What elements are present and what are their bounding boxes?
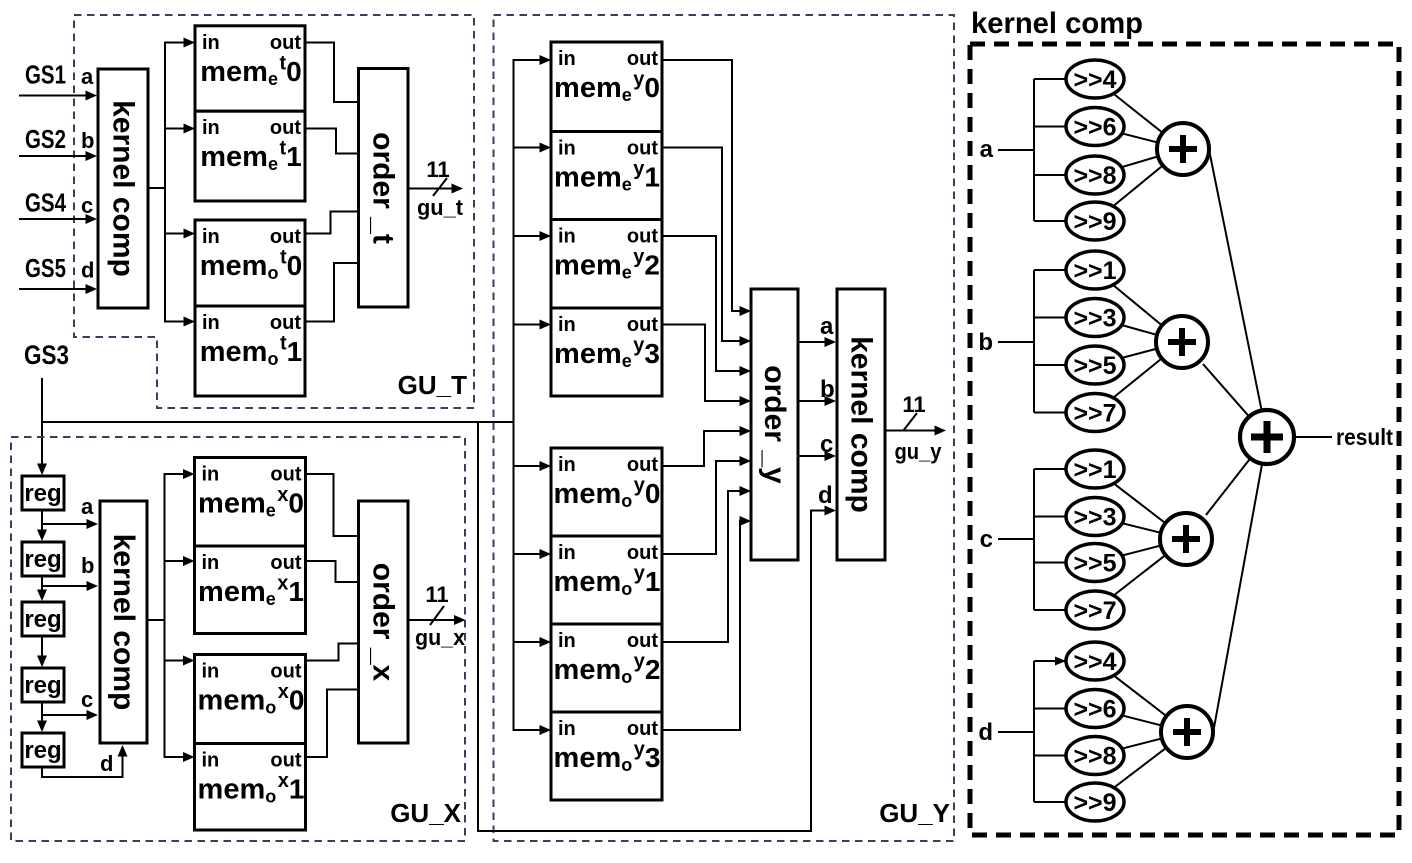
wire memet1 input arrow (GU_T)	[164, 128, 187, 130]
svg-text:>>3: >>3	[1073, 305, 1116, 333]
wire mem_e_y2 out to order_y	[662, 236, 742, 371]
block kernel comp (GU_Y)	[837, 289, 885, 560]
svg-text:memet1: memet1	[200, 138, 301, 175]
wire tap a to kernel comp (GU_X)	[42, 523, 90, 525]
wire a distribution vertical	[1033, 79, 1035, 221]
wire d distribution vertical	[1033, 661, 1035, 802]
block memo_t1 (GU_T)	[195, 306, 305, 396]
wire mem input distribution (GU_T)	[164, 43, 166, 322]
wire shifter to adder (d)	[1095, 661, 1187, 732]
wire d input line	[998, 731, 1034, 733]
block mem_e_y1 (GU_Y)	[551, 132, 662, 220]
wire b distribution vertical	[1033, 270, 1035, 413]
kernel comp dashed boundary	[970, 44, 1399, 835]
wire shifter to adder (a)	[1095, 149, 1183, 175]
svg-text:11: 11	[425, 582, 448, 607]
block reg4 (GU_X)	[22, 668, 64, 702]
wire mem_e_y3 out to order_y	[662, 325, 742, 402]
wire tap c to kernel comp (GU_X)	[42, 714, 90, 716]
wire shifter to adder (b)	[1095, 318, 1182, 343]
block reg5 (GU_X)	[22, 733, 64, 767]
svg-text:kernel comp: kernel comp	[107, 100, 140, 277]
svg-text:>>5: >>5	[1073, 550, 1116, 578]
bus slash gu_x (11)	[430, 606, 444, 625]
svg-text:out: out	[627, 630, 658, 652]
wire stub to shifter >>5 (c)	[1034, 562, 1095, 564]
svg-text:gu_t: gu_t	[417, 195, 464, 220]
svg-text:d: d	[81, 258, 94, 283]
svg-text:out: out	[627, 542, 658, 564]
svg-text:memoy3: memoy3	[554, 739, 661, 776]
wire shifter to adder (a)	[1095, 79, 1183, 149]
wire mem_e_y0 input arrow (GU_Y)	[513, 59, 544, 61]
wire b input line	[998, 341, 1034, 343]
wire mem_e_t1 out to order_t	[305, 129, 359, 154]
wire mem_e_y0 out to order_y	[662, 60, 742, 311]
svg-text:11: 11	[426, 157, 449, 182]
svg-text:kernel comp: kernel comp	[107, 534, 140, 711]
shifter >>4 (a)	[1066, 60, 1124, 98]
svg-text:memox1: memox1	[198, 770, 305, 807]
shifter >>1 (b)	[1066, 251, 1124, 289]
wire shifter to adder (c)	[1095, 469, 1186, 539]
wire reg1 to reg2	[41, 510, 43, 533]
svg-text:gu_x: gu_x	[415, 625, 466, 650]
wire shifter to adder (c)	[1095, 539, 1186, 563]
svg-text:memey2: memey2	[554, 246, 660, 283]
svg-text:memet0: memet0	[200, 52, 301, 89]
svg-text:memey1: memey1	[554, 158, 660, 195]
GU_Y dashed boundary	[494, 15, 955, 841]
svg-text:gu_y: gu_y	[895, 439, 943, 464]
wire GS4 input arrow	[19, 218, 89, 220]
wire stub to shifter >>4 (d)	[1034, 660, 1095, 662]
shifter >>3 (b)	[1066, 299, 1124, 337]
wire order_y a to kernel comp	[798, 341, 828, 343]
wire memox0 input arrow (GU_X)	[164, 660, 187, 662]
svg-text:in: in	[558, 454, 576, 476]
svg-text:c: c	[980, 526, 993, 553]
wire kernel comp output stub (GU_T)	[147, 187, 165, 189]
svg-text:GU_Y: GU_Y	[879, 798, 950, 828]
shifter >>5 (c)	[1066, 544, 1124, 582]
adder + (a)	[1157, 123, 1209, 175]
svg-text:a: a	[81, 64, 94, 89]
block mem_e_y0 (GU_Y)	[551, 42, 662, 132]
wire c input line	[998, 538, 1034, 540]
wire mem_o_y3 out to order_y	[662, 521, 742, 730]
wire stub to shifter >>4 (a)	[1034, 78, 1095, 80]
wire mem input distribution (GU_X)	[164, 474, 166, 757]
wire a input line	[998, 149, 1034, 151]
svg-text:in: in	[202, 464, 220, 486]
svg-text:out: out	[627, 48, 658, 70]
block reg1 (GU_X)	[22, 476, 64, 510]
svg-text:>>8: >>8	[1073, 743, 1116, 771]
svg-text:b: b	[820, 376, 835, 403]
wire stub to shifter >>3 (c)	[1034, 516, 1095, 518]
final adder +	[1240, 410, 1294, 464]
svg-text:GS2: GS2	[25, 124, 66, 154]
svg-text:c: c	[81, 687, 93, 712]
wire memet0 input arrow (GU_T)	[164, 42, 187, 44]
wire mem_o_y1 out to order_y	[662, 461, 742, 554]
wire memot0 input arrow (GU_T)	[164, 233, 187, 235]
svg-text:in: in	[202, 312, 220, 334]
svg-text:>>7: >>7	[1073, 597, 1116, 625]
svg-text:GS5: GS5	[25, 253, 66, 283]
svg-text:>>3: >>3	[1073, 504, 1116, 532]
bus slash gu_y (11)	[903, 413, 917, 431]
wire stub to shifter >>7 (b)	[1034, 412, 1095, 414]
svg-text:>>6: >>6	[1073, 114, 1116, 142]
svg-text:a: a	[820, 313, 834, 340]
svg-text:memey3: memey3	[554, 335, 660, 372]
svg-text:>>1: >>1	[1073, 257, 1116, 285]
block order_t	[359, 69, 409, 308]
shifter >>6 (a)	[1066, 108, 1124, 146]
svg-text:out: out	[270, 552, 301, 574]
wire c distribution vertical	[1033, 469, 1035, 610]
svg-text:memex0: memex0	[198, 484, 304, 521]
block reg2 (GU_X)	[22, 542, 64, 576]
wire shifter to adder (d)	[1095, 709, 1187, 733]
wire adder b to final adder	[1203, 364, 1267, 437]
wire memot1 input arrow (GU_T)	[164, 321, 187, 323]
svg-text:>>5: >>5	[1073, 352, 1116, 380]
wire shifter to adder (a)	[1095, 149, 1183, 221]
wire shifter to adder (b)	[1095, 342, 1182, 365]
svg-text:memex1: memex1	[198, 573, 304, 610]
wire memex1 input arrow (GU_X)	[164, 560, 187, 562]
wire d from reg5 to kernel comp bottom (GU_X)	[42, 748, 123, 777]
svg-text:out: out	[270, 117, 301, 139]
svg-text:reg: reg	[24, 737, 61, 764]
wire mem_e_y3 input arrow (GU_Y)	[513, 324, 544, 326]
wire mem_e_y2 input arrow (GU_Y)	[513, 235, 544, 237]
svg-text:a: a	[81, 494, 94, 519]
svg-text:in: in	[202, 226, 220, 248]
svg-text:in: in	[558, 48, 576, 70]
svg-text:reg: reg	[24, 546, 61, 573]
svg-text:d: d	[818, 482, 833, 509]
adder + (b)	[1156, 316, 1208, 368]
wire stub to shifter >>9 (d)	[1034, 801, 1095, 803]
wire mem_o_y2 input arrow (GU_Y)	[513, 641, 544, 643]
wire gu_y output arrow	[885, 430, 938, 432]
wire mem_o_x1 out to order_x	[306, 690, 359, 758]
svg-text:in: in	[558, 630, 576, 652]
wire shifter to adder (c)	[1095, 539, 1186, 610]
wire adder a to final adder	[1209, 150, 1267, 438]
wire d from GS3 junction to kernel comp (GU_Y)	[478, 422, 828, 831]
wire adder d to final adder	[1214, 437, 1268, 731]
svg-text:>>8: >>8	[1073, 162, 1116, 190]
wire gu_x output arrow	[408, 619, 458, 621]
wire tap b to kernel comp (GU_X)	[42, 585, 90, 587]
wire GS3 branch down to GU_X reg chain	[41, 422, 43, 467]
GU_T dashed boundary	[74, 15, 474, 408]
svg-text:b: b	[978, 329, 993, 356]
svg-text:out: out	[270, 226, 301, 248]
block meme_t1 (GU_T)	[195, 111, 305, 201]
wire shifter to adder (d)	[1095, 732, 1187, 802]
svg-text:out: out	[270, 750, 301, 772]
adder + (c)	[1160, 513, 1212, 565]
wire reg4 to reg5	[41, 702, 43, 724]
svg-text:in: in	[558, 226, 576, 248]
wire GS1 input arrow	[19, 95, 89, 97]
wire stub to shifter >>8 (d)	[1034, 755, 1095, 757]
shifter >>9 (a)	[1066, 202, 1124, 240]
shifter >>6 (d)	[1066, 690, 1124, 728]
wire stub to shifter >>7 (c)	[1034, 609, 1095, 611]
svg-text:in: in	[558, 138, 576, 160]
svg-text:kernel comp: kernel comp	[845, 336, 878, 513]
wire mem_e_x0 out to order_x	[306, 474, 359, 536]
svg-text:memot1: memot1	[200, 333, 302, 370]
svg-text:b: b	[81, 128, 94, 153]
svg-text:reg: reg	[24, 606, 61, 633]
svg-text:c: c	[820, 431, 833, 458]
svg-text:d: d	[978, 719, 993, 746]
svg-text:c: c	[81, 193, 93, 218]
svg-text:in: in	[202, 552, 220, 574]
wire stub to shifter >>6 (a)	[1034, 126, 1095, 128]
block memo_t0 (GU_T)	[195, 220, 305, 306]
svg-text:out: out	[270, 32, 301, 54]
svg-text:GS4: GS4	[25, 188, 66, 218]
wire stub to shifter >>1 (b)	[1034, 269, 1095, 271]
wire order_y c to kernel comp	[798, 455, 828, 457]
wire mem_o_t0 out to order_t	[305, 212, 359, 234]
block mem_o_y1 (GU_Y)	[551, 536, 662, 624]
svg-text:out: out	[270, 661, 301, 683]
wire mem_e_x1 out to order_x	[306, 561, 359, 582]
wire stub to shifter >>3 (b)	[1034, 317, 1095, 319]
wire stub to shifter >>1 (c)	[1034, 468, 1095, 470]
wire shifter to adder (b)	[1095, 270, 1182, 342]
block mem_o_y2 (GU_Y)	[551, 624, 662, 712]
wire order_y b to kernel comp	[798, 400, 828, 402]
wire mem_e_y1 out to order_y	[662, 148, 742, 342]
block mem_o_y3 (GU_Y)	[551, 712, 662, 800]
wire GS3 vertical	[41, 378, 43, 423]
bus slash gu_t (11)	[433, 178, 447, 196]
svg-text:>>9: >>9	[1073, 789, 1116, 817]
wire adder c to final adder	[1206, 437, 1267, 515]
block meme_x0 (GU_X)	[195, 458, 306, 547]
shifter >>4 (d)	[1066, 642, 1124, 680]
wire mem_e_t0 out to order_t	[305, 43, 359, 103]
svg-text:>>9: >>9	[1073, 208, 1116, 236]
svg-text:out: out	[627, 454, 658, 476]
svg-text:GU_X: GU_X	[390, 798, 461, 828]
svg-text:>>7: >>7	[1073, 400, 1116, 428]
svg-text:memoy2: memoy2	[554, 651, 661, 688]
svg-text:GU_T: GU_T	[398, 370, 467, 400]
block meme_x1 (GU_X)	[195, 546, 306, 634]
svg-text:in: in	[202, 117, 220, 139]
svg-text:out: out	[627, 314, 658, 336]
wire shifter to adder (b)	[1095, 342, 1182, 413]
wire reg3 to reg4	[41, 636, 43, 659]
block memo_x0 (GU_X)	[195, 655, 306, 744]
wire mem input distribution (GU_Y)	[513, 60, 515, 730]
svg-text:reg: reg	[24, 480, 61, 507]
block kernel comp (GU_X)	[100, 501, 147, 743]
shifter >>8 (a)	[1066, 156, 1124, 194]
wire mem_o_y0 out to order_y	[662, 431, 742, 466]
wire GS5 input arrow	[19, 288, 89, 290]
svg-text:>>4: >>4	[1073, 648, 1116, 676]
block reg3 (GU_X)	[22, 602, 64, 636]
svg-text:>>1: >>1	[1073, 456, 1116, 484]
svg-text:memoy0: memoy0	[554, 475, 661, 512]
block mem_e_y3 (GU_Y)	[551, 308, 662, 396]
wire memox1 input arrow (GU_X)	[164, 756, 187, 758]
svg-text:result: result	[1336, 424, 1393, 450]
wire stub to shifter >>6 (d)	[1034, 708, 1095, 710]
wire reg2 to reg3	[41, 576, 43, 593]
adder + (d)	[1161, 706, 1213, 758]
shifter >>9 (d)	[1066, 783, 1124, 821]
svg-text:in: in	[558, 314, 576, 336]
wire mem_e_y1 input arrow (GU_Y)	[513, 147, 544, 149]
shifter >>3 (c)	[1066, 498, 1124, 536]
svg-text:kernel comp: kernel comp	[971, 7, 1143, 40]
shifter >>8 (d)	[1066, 737, 1124, 775]
shifter >>7 (c)	[1066, 591, 1124, 629]
svg-text:memoy1: memoy1	[554, 563, 661, 600]
wire mem_o_y3 input arrow (GU_Y)	[513, 729, 544, 731]
svg-text:order _y: order _y	[758, 365, 791, 484]
wire mem_o_y2 out to order_y	[662, 491, 742, 642]
wire shifter to adder (d)	[1095, 732, 1187, 756]
GU_X dashed boundary	[11, 437, 465, 841]
svg-text:out: out	[627, 226, 658, 248]
shifter >>7 (b)	[1066, 394, 1124, 432]
wire GS2 input arrow	[19, 155, 89, 157]
svg-text:out: out	[270, 464, 301, 486]
wire final adder to result	[1295, 436, 1332, 438]
wire stub to shifter >>9 (a)	[1034, 220, 1095, 222]
wire kernel comp output stub (GU_X)	[146, 619, 165, 621]
svg-text:b: b	[81, 553, 94, 578]
wire mem_o_y0 input arrow (GU_Y)	[513, 465, 544, 467]
svg-text:in: in	[202, 750, 220, 772]
svg-text:GS3: GS3	[24, 340, 69, 370]
block order_x	[359, 501, 409, 743]
svg-text:out: out	[627, 138, 658, 160]
svg-text:>>6: >>6	[1073, 696, 1116, 724]
wire memex0 input arrow (GU_X)	[164, 473, 187, 475]
wire mem_o_y1 input arrow (GU_Y)	[513, 553, 544, 555]
svg-text:order _t: order _t	[367, 132, 400, 244]
wire stub to shifter >>8 (a)	[1034, 174, 1095, 176]
block meme_t0 (GU_T)	[195, 26, 305, 111]
block mem_e_y2 (GU_Y)	[551, 220, 662, 309]
svg-text:out: out	[270, 312, 301, 334]
svg-text:a: a	[980, 136, 994, 163]
wire gu_t output arrow	[408, 188, 455, 190]
svg-text:in: in	[558, 718, 576, 740]
svg-text:memey0: memey0	[554, 69, 660, 106]
svg-text:GS1: GS1	[25, 60, 66, 90]
svg-text:in: in	[558, 542, 576, 564]
block order_y	[751, 289, 798, 560]
svg-text:in: in	[202, 32, 220, 54]
shifter >>5 (b)	[1066, 346, 1124, 384]
svg-text:memox0: memox0	[198, 681, 305, 718]
svg-text:>>4: >>4	[1073, 66, 1116, 94]
block mem_o_y0 (GU_Y)	[551, 448, 662, 536]
block memo_x1 (GU_X)	[195, 744, 306, 831]
wire mem_o_t1 out to order_t	[305, 263, 359, 322]
wire shifter to adder (a)	[1095, 127, 1183, 150]
svg-text:memot0: memot0	[200, 247, 302, 284]
svg-text:d: d	[100, 751, 113, 776]
wire shifter to adder (c)	[1095, 517, 1186, 540]
shifter >>1 (c)	[1066, 450, 1124, 488]
wire stub to shifter >>5 (b)	[1034, 364, 1095, 366]
svg-text:order _x: order _x	[367, 563, 400, 682]
svg-text:out: out	[627, 718, 658, 740]
wire GS3 horizontal to GU_Y	[41, 421, 515, 423]
block kernel comp (GU_T)	[98, 69, 148, 308]
svg-text:11: 11	[902, 392, 925, 417]
wire arrow into shifter >>4 (d)	[1055, 657, 1066, 666]
svg-text:reg: reg	[24, 672, 61, 699]
svg-text:in: in	[202, 661, 220, 683]
wire mem_o_x0 out to order_x	[306, 644, 359, 661]
